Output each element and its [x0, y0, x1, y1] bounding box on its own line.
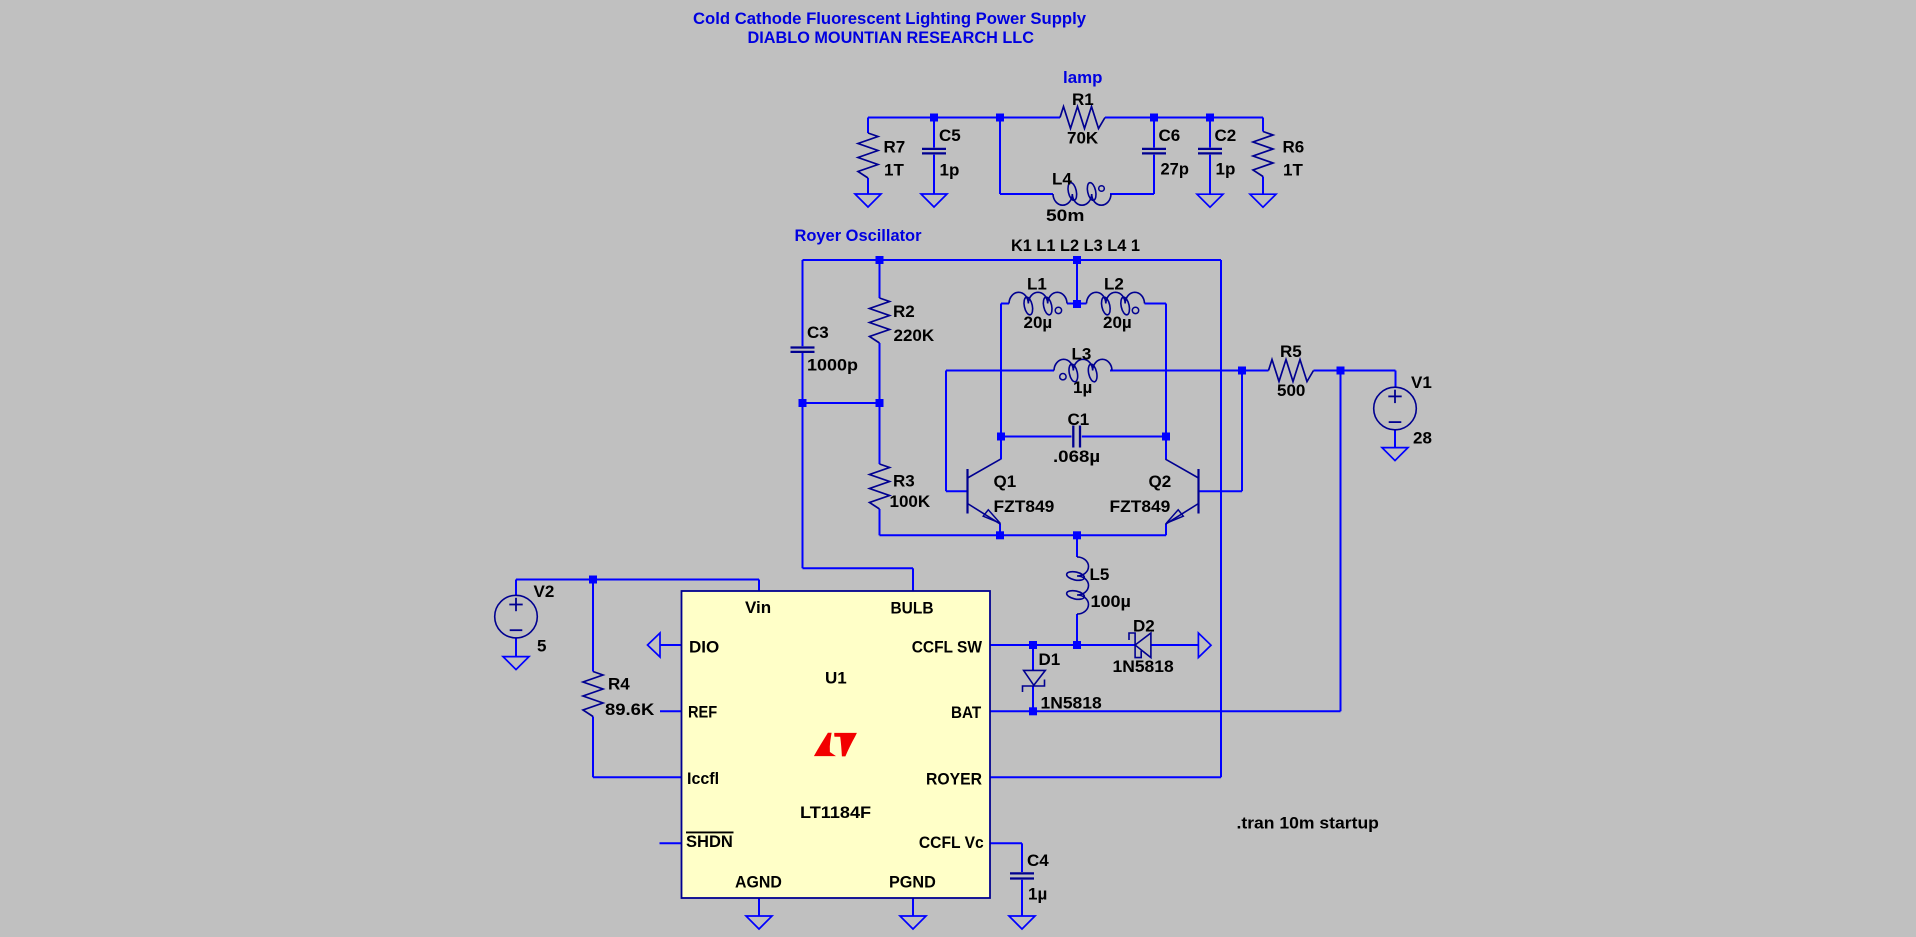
- svg-text:L2: L2: [1104, 275, 1124, 294]
- svg-text:V2: V2: [534, 582, 555, 601]
- svg-text:.tran 10m startup: .tran 10m startup: [1237, 814, 1379, 833]
- svg-text:DIO: DIO: [689, 637, 719, 656]
- svg-text:Vin: Vin: [745, 598, 771, 617]
- svg-text:D2: D2: [1133, 617, 1155, 636]
- svg-text:R6: R6: [1283, 138, 1305, 157]
- svg-text:REF: REF: [688, 703, 717, 722]
- svg-text:Iccfl: Iccfl: [687, 769, 719, 788]
- svg-text:L5: L5: [1090, 565, 1110, 584]
- svg-text:100µ: 100µ: [1091, 592, 1131, 611]
- svg-text:1T: 1T: [884, 161, 904, 180]
- svg-text:C2: C2: [1215, 126, 1237, 145]
- svg-text:Royer Oscillator: Royer Oscillator: [795, 226, 922, 245]
- svg-text:R3: R3: [893, 472, 915, 491]
- svg-text:L4: L4: [1052, 170, 1072, 189]
- svg-text:89.6K: 89.6K: [605, 700, 655, 719]
- svg-text:C6: C6: [1159, 126, 1181, 145]
- svg-text:Q2: Q2: [1149, 472, 1172, 491]
- svg-text:L1: L1: [1027, 275, 1047, 294]
- svg-text:Q1: Q1: [994, 472, 1017, 491]
- svg-text:20µ: 20µ: [1103, 313, 1132, 332]
- svg-text:DIABLO MOUNTIAN RESEARCH LLC: DIABLO MOUNTIAN RESEARCH LLC: [748, 28, 1035, 47]
- svg-text:27p: 27p: [1161, 159, 1189, 178]
- svg-text:R4: R4: [608, 675, 630, 694]
- svg-text:50m: 50m: [1046, 206, 1084, 225]
- svg-text:Cold Cathode Fluorescent Light: Cold Cathode Fluorescent Lighting Power …: [693, 9, 1087, 28]
- svg-text:70K: 70K: [1067, 128, 1099, 147]
- svg-text:AGND: AGND: [735, 873, 782, 892]
- svg-text:R2: R2: [893, 302, 915, 321]
- svg-text:C5: C5: [939, 126, 961, 145]
- svg-text:220K: 220K: [894, 326, 935, 345]
- svg-text:C4: C4: [1027, 851, 1049, 870]
- svg-text:lamp: lamp: [1063, 68, 1102, 87]
- svg-text:SHDN: SHDN: [686, 832, 733, 851]
- svg-text:1N5818: 1N5818: [1113, 657, 1174, 676]
- svg-text:1000p: 1000p: [807, 356, 858, 375]
- svg-text:PGND: PGND: [889, 873, 936, 892]
- svg-text:LT1184F: LT1184F: [800, 803, 871, 822]
- svg-text:5: 5: [537, 637, 546, 656]
- svg-text:K1 L1 L2 L3 L4 1: K1 L1 L2 L3 L4 1: [1011, 236, 1140, 255]
- svg-text:U1: U1: [825, 669, 847, 688]
- svg-text:1µ: 1µ: [1073, 378, 1092, 397]
- svg-text:FZT849: FZT849: [1110, 497, 1171, 516]
- svg-text:1T: 1T: [1283, 161, 1303, 180]
- svg-text:CCFL SW: CCFL SW: [912, 637, 983, 656]
- svg-text:R1: R1: [1072, 90, 1094, 109]
- svg-text:20µ: 20µ: [1024, 313, 1053, 332]
- svg-text:D1: D1: [1039, 650, 1061, 669]
- svg-text:ROYER: ROYER: [926, 770, 982, 789]
- svg-text:R5: R5: [1280, 342, 1302, 361]
- svg-text:1N5818: 1N5818: [1041, 694, 1102, 713]
- svg-text:BAT: BAT: [951, 703, 982, 722]
- svg-text:1p: 1p: [940, 161, 960, 180]
- svg-text:R7: R7: [884, 138, 906, 157]
- svg-text:.068µ: .068µ: [1053, 447, 1100, 466]
- svg-text:C3: C3: [807, 323, 829, 342]
- svg-text:C1: C1: [1068, 410, 1090, 429]
- svg-text:100K: 100K: [890, 492, 931, 511]
- svg-text:CCFL Vc: CCFL Vc: [919, 833, 984, 852]
- svg-text:28: 28: [1413, 429, 1432, 448]
- svg-text:FZT849: FZT849: [994, 497, 1055, 516]
- svg-text:BULB: BULB: [891, 598, 934, 617]
- svg-text:1µ: 1µ: [1028, 885, 1047, 904]
- svg-text:L3: L3: [1072, 345, 1092, 364]
- svg-text:1p: 1p: [1216, 159, 1236, 178]
- svg-text:V1: V1: [1411, 373, 1432, 392]
- svg-text:500: 500: [1277, 381, 1305, 400]
